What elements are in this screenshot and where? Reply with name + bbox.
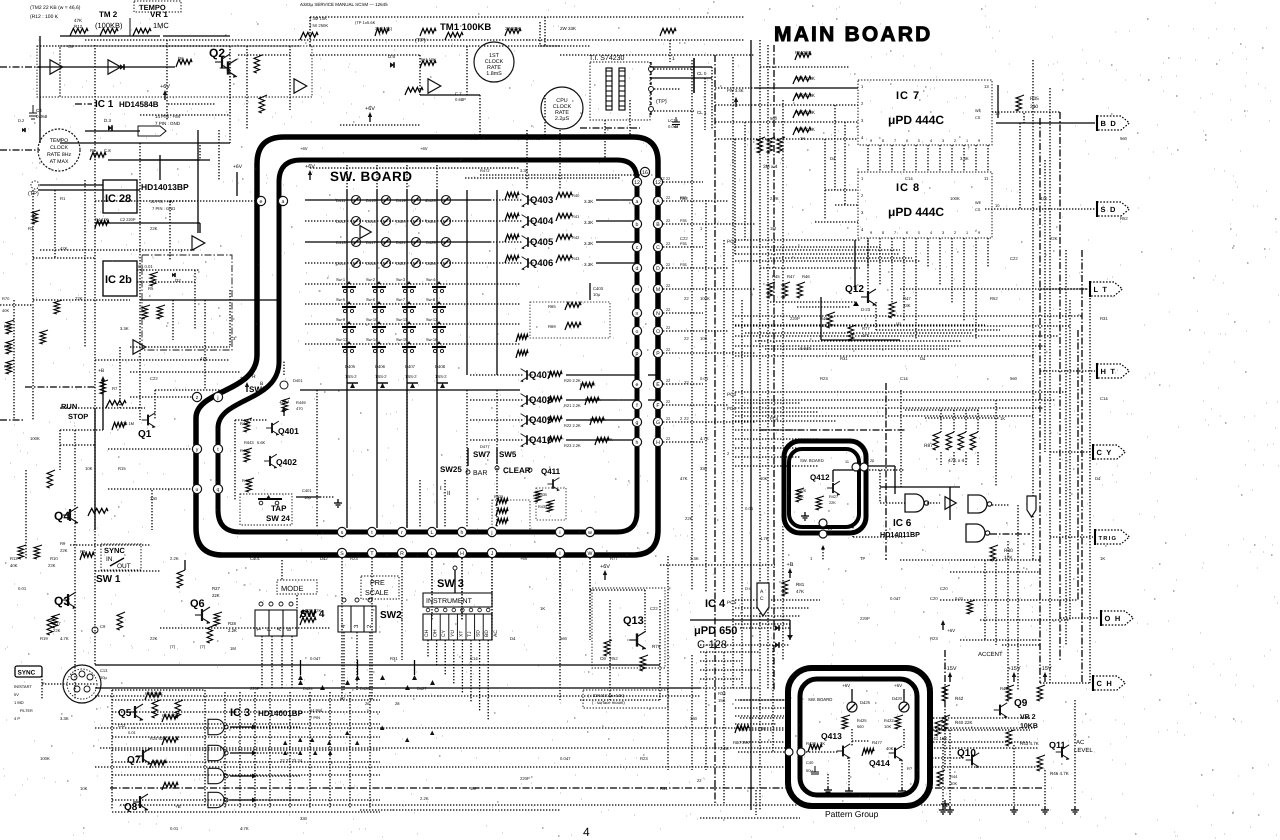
svg-text:D411: D411	[336, 198, 346, 203]
svg-text:14 PIN : +5V: 14 PIN : +5V	[150, 199, 174, 204]
svg-text:220P: 220P	[520, 776, 530, 781]
svg-text:S: S	[340, 551, 344, 557]
svg-text:Q402: Q402	[276, 457, 297, 467]
svg-text:2.2K: 2.2K	[228, 628, 237, 633]
svg-text:C-128: C-128	[697, 639, 727, 651]
svg-text:w: w	[588, 530, 592, 536]
svg-text:R1: R1	[60, 196, 66, 201]
svg-text:10μ: 10μ	[100, 675, 107, 680]
svg-text:Q403: Q403	[530, 195, 553, 206]
svg-text:2.2K: 2.2K	[420, 796, 429, 801]
svg-text:Sw-1: Sw-1	[336, 277, 346, 282]
svg-text:SD: SD	[476, 630, 482, 637]
svg-text:3.3K: 3.3K	[520, 168, 529, 173]
svg-text:m: m	[635, 287, 639, 293]
svg-text:2.2μS: 2.2μS	[555, 116, 570, 122]
svg-text:1 MΩ: 1 MΩ	[14, 700, 24, 705]
svg-text:a: a	[282, 199, 285, 205]
svg-text:R44: R44	[950, 774, 958, 779]
svg-text:SCALE: SCALE	[365, 588, 389, 597]
svg-text:R12: R12	[10, 556, 18, 561]
svg-text:+6V: +6V	[420, 146, 428, 151]
svg-text:R52: R52	[1120, 216, 1128, 221]
svg-text:o: o	[636, 329, 639, 335]
svg-text:470: 470	[296, 406, 303, 411]
svg-text:C.7: C.7	[455, 91, 462, 96]
svg-text:R477: R477	[872, 740, 883, 745]
svg-text:47K: 47K	[1040, 196, 1048, 201]
svg-text:1: 1	[966, 231, 968, 235]
svg-text:17K: 17K	[1004, 555, 1013, 561]
svg-text:h: h	[461, 530, 464, 536]
svg-text:SW. BOARD: SW. BOARD	[330, 169, 413, 184]
svg-text:C40: C40	[806, 760, 814, 765]
svg-text:D6: D6	[178, 56, 184, 61]
svg-text:i: i	[559, 530, 560, 536]
svg-text:13: 13	[984, 84, 989, 89]
svg-text:A: A	[276, 627, 283, 631]
svg-text:2W 33K: 2W 33K	[505, 26, 520, 31]
svg-text:Q1: Q1	[138, 429, 152, 440]
svg-text:220P: 220P	[860, 616, 870, 621]
svg-text:Q401: Q401	[278, 426, 299, 436]
svg-text:R01 3.3K: R01 3.3K	[795, 76, 816, 82]
svg-text:n: n	[636, 311, 639, 317]
svg-text:I: I	[559, 551, 560, 557]
svg-text:IN/START: IN/START	[14, 684, 32, 689]
svg-text:330: 330	[150, 496, 158, 501]
svg-text:2W 33K: 2W 33K	[560, 26, 576, 31]
svg-text:+15V: +15V	[1039, 666, 1052, 672]
svg-text:D-6: D-6	[745, 586, 752, 591]
svg-text:22: 22	[666, 196, 670, 200]
svg-text:μPD 444C: μPD 444C	[888, 113, 944, 127]
svg-text:Q414: Q414	[869, 758, 890, 768]
svg-text:10K: 10K	[85, 466, 93, 471]
svg-text:C14: C14	[470, 656, 478, 661]
svg-text:OH: OH	[433, 629, 439, 637]
svg-text:4.7K: 4.7K	[240, 826, 249, 831]
svg-text:D424: D424	[426, 219, 436, 224]
svg-text:+6V: +6V	[305, 164, 315, 170]
svg-text:SW25: SW25	[440, 465, 462, 474]
svg-text:100K: 100K	[40, 756, 50, 761]
svg-text:22: 22	[666, 242, 670, 246]
svg-text:6: 6	[906, 231, 908, 235]
svg-text:5.6K: 5.6K	[257, 440, 266, 445]
svg-text:Sw-7: Sw-7	[396, 297, 406, 302]
svg-text:Sw-11: Sw-11	[396, 317, 408, 322]
svg-text:Sw-12: Sw-12	[426, 317, 438, 322]
svg-text:R6: R6	[90, 148, 96, 153]
svg-text:P35: P35	[680, 219, 687, 223]
svg-text:1K: 1K	[1100, 556, 1105, 561]
svg-text:7 PIN : GND: 7 PIN : GND	[152, 206, 175, 211]
svg-text:15K: 15K	[718, 698, 726, 703]
svg-text:47K: 47K	[74, 18, 82, 23]
svg-text:D: D	[656, 266, 660, 272]
svg-text:FILTER: FILTER	[20, 709, 33, 713]
svg-text:0.047: 0.047	[560, 756, 571, 761]
svg-text:D406: D406	[375, 364, 386, 369]
svg-text:22: 22	[666, 417, 670, 421]
svg-text:22: 22	[666, 177, 670, 181]
svg-text:R443: R443	[244, 440, 254, 445]
svg-text:R44: R44	[1000, 686, 1008, 691]
svg-text:C H: C H	[1097, 679, 1114, 688]
svg-text:SW 24: SW 24	[266, 514, 291, 523]
svg-text:7: 7	[894, 231, 896, 235]
svg-text:C: C	[760, 596, 764, 602]
svg-text:R31: R31	[390, 656, 398, 661]
svg-text:3.3K: 3.3K	[584, 241, 593, 246]
svg-text:y: y	[196, 447, 199, 453]
svg-text:2K: 2K	[820, 741, 825, 746]
svg-text:4: 4	[930, 139, 932, 143]
svg-text:0.047: 0.047	[310, 656, 321, 661]
svg-text:CY: CY	[441, 629, 447, 637]
svg-text:3.3K: 3.3K	[960, 156, 969, 161]
svg-text:(R12 : 100 K: (R12 : 100 K	[30, 14, 59, 20]
svg-text:SW7: SW7	[473, 450, 491, 459]
svg-text:R77: R77	[862, 326, 870, 331]
svg-text:R28: R28	[228, 621, 236, 626]
svg-text:Q406: Q406	[530, 258, 553, 269]
svg-text:D4: D4	[830, 156, 836, 161]
svg-text:22: 22	[684, 296, 689, 301]
svg-text:D4: D4	[1095, 476, 1101, 481]
svg-text:0.047: 0.047	[890, 596, 901, 601]
svg-text:22: 22	[684, 336, 689, 341]
svg-text:R43: R43	[572, 256, 580, 261]
svg-text:22K: 22K	[75, 296, 83, 301]
svg-text:2: 2	[954, 139, 956, 143]
svg-text:Q7: Q7	[127, 755, 141, 766]
svg-text:R69: R69	[548, 324, 556, 329]
svg-text:30K: 30K	[950, 781, 957, 786]
svg-text:ACCENT: ACCENT	[978, 651, 1003, 658]
svg-text:( 3M 10K: ( 3M 10K	[310, 16, 327, 21]
svg-text:22K: 22K	[150, 636, 158, 641]
svg-text:IC 2b: IC 2b	[105, 274, 132, 286]
svg-text:+6V: +6V	[365, 106, 375, 112]
svg-text:0.01: 0.01	[128, 730, 137, 735]
svg-text:D419: D419	[396, 198, 406, 203]
svg-text:R04 3.3K: R04 3.3K	[795, 127, 816, 133]
svg-text:C20: C20	[940, 586, 948, 591]
svg-text:T: T	[256, 627, 263, 631]
svg-text:47K x 4: 47K x 4	[948, 458, 965, 464]
svg-text:C4: C4	[36, 108, 42, 113]
svg-text:D421: D421	[396, 240, 406, 245]
svg-text:4 P: 4 P	[14, 716, 20, 721]
svg-text:Sw-15: Sw-15	[396, 337, 408, 342]
svg-text:R426: R426	[242, 478, 252, 483]
svg-text:D4: D4	[920, 356, 926, 361]
svg-text:MODE: MODE	[281, 584, 304, 593]
svg-text:G: G	[656, 420, 660, 426]
svg-text:D425: D425	[426, 240, 436, 245]
svg-text:SW 1: SW 1	[96, 574, 121, 585]
svg-text:22K: 22K	[48, 563, 56, 568]
svg-text:7: 7	[894, 139, 896, 143]
svg-text:R70: R70	[2, 296, 10, 301]
svg-text:R: R	[252, 374, 256, 380]
svg-text:+15V: +15V	[1008, 666, 1021, 672]
svg-text:C14: C14	[905, 176, 913, 181]
svg-text:(4): (4)	[896, 321, 902, 326]
svg-text:C20: C20	[930, 596, 938, 601]
svg-text:D420: D420	[892, 696, 903, 701]
svg-text:OUT: OUT	[117, 563, 131, 570]
svg-text:MAIN BOARD: MAIN BOARD	[774, 23, 933, 46]
svg-text:Sw-9: Sw-9	[336, 317, 346, 322]
svg-text:3M x 4: 3M x 4	[763, 164, 778, 170]
svg-text:12: 12	[655, 180, 661, 186]
svg-text:R9: R9	[60, 541, 66, 546]
svg-text:μPD 650: μPD 650	[694, 625, 737, 637]
svg-text:330: 330	[690, 716, 698, 721]
svg-text:Q5: Q5	[118, 708, 132, 719]
svg-text:Q405: Q405	[530, 237, 554, 248]
svg-text:R?: R?	[907, 766, 913, 771]
svg-text:CS: CS	[975, 116, 981, 120]
svg-text:14 PIN : +5V: 14 PIN : +5V	[155, 114, 181, 119]
svg-text:Q412: Q412	[810, 473, 830, 482]
svg-text:Q13: Q13	[623, 615, 644, 627]
svg-text:e: e	[636, 382, 639, 388]
svg-text:12: 12	[798, 759, 802, 763]
svg-text:560: 560	[1120, 136, 1128, 141]
svg-text:Q413: Q413	[821, 731, 842, 741]
svg-text:(TP): (TP)	[415, 38, 426, 44]
svg-text:22K: 22K	[829, 501, 836, 505]
svg-text:47K: 47K	[60, 246, 68, 251]
svg-text:0.01: 0.01	[18, 586, 27, 591]
svg-text:R52: R52	[990, 296, 998, 301]
svg-text:μPD 444C: μPD 444C	[888, 205, 944, 219]
svg-text:560: 560	[857, 724, 864, 729]
svg-text:J: J	[491, 551, 494, 557]
svg-text:D412: D412	[336, 219, 346, 224]
svg-text:R23: R23	[820, 376, 828, 381]
svg-text:3.3K: 3.3K	[584, 262, 593, 267]
svg-text:23: 23	[828, 527, 832, 531]
svg-text:R42 47K: R42 47K	[590, 417, 606, 422]
svg-text:C22: C22	[650, 606, 658, 611]
svg-text:(TP): (TP)	[28, 191, 39, 197]
svg-text:TAP: TAP	[271, 504, 287, 513]
svg-text:0.01: 0.01	[745, 506, 754, 511]
svg-text:8: 8	[882, 231, 884, 235]
svg-text:AT MAX: AT MAX	[50, 159, 69, 165]
svg-text:9: 9	[978, 139, 980, 143]
svg-text:Q9: Q9	[1014, 698, 1028, 709]
svg-text:11: 11	[984, 176, 989, 181]
svg-text:22: 22	[697, 778, 702, 783]
svg-text:R47: R47	[903, 296, 911, 301]
svg-text:HD14584B: HD14584B	[119, 100, 159, 109]
svg-text:0.01: 0.01	[700, 376, 709, 381]
svg-text:C401: C401	[250, 556, 261, 561]
svg-text:D413: D413	[336, 240, 346, 245]
svg-text:C9: C9	[100, 624, 106, 629]
svg-text:D423: D423	[426, 198, 436, 203]
svg-text:R42: R42	[572, 235, 580, 240]
svg-text:R471: R471	[530, 136, 541, 141]
svg-text:TJ: TJ	[467, 631, 473, 637]
svg-text:0.68P: 0.68P	[455, 97, 466, 102]
svg-text:1SS-2: 1SS-2	[375, 374, 387, 379]
svg-text:Sw-14: Sw-14	[366, 337, 378, 342]
svg-text:R46: R46	[802, 274, 810, 279]
svg-text:8: 8	[882, 139, 884, 143]
svg-text:+B: +B	[175, 804, 181, 809]
svg-text:R41: R41	[572, 214, 580, 219]
svg-text:R52: R52	[680, 196, 688, 201]
svg-text:TP: TP	[860, 556, 866, 561]
svg-text:10: 10	[995, 111, 1000, 116]
svg-text:40K: 40K	[10, 563, 18, 568]
svg-text:D414: D414	[336, 261, 346, 266]
svg-text:C22: C22	[150, 376, 158, 381]
svg-text:IC 6: IC 6	[893, 518, 912, 529]
svg-text:47K: 47K	[796, 589, 804, 594]
svg-text:D405: D405	[345, 364, 356, 369]
svg-text:(7): (7)	[200, 644, 206, 649]
svg-text:5V: 5V	[14, 692, 19, 697]
svg-text:1K: 1K	[800, 136, 805, 141]
svg-text:IC 4: IC 4	[705, 598, 726, 610]
svg-text:22: 22	[684, 416, 689, 421]
svg-text:560: 560	[1010, 376, 1018, 381]
svg-text:TRIG: TRIG	[1099, 535, 1118, 542]
svg-text:P35: P35	[680, 263, 687, 267]
svg-text:3.3K: 3.3K	[690, 556, 699, 561]
svg-text:22K: 22K	[60, 548, 68, 553]
svg-text:C.8: C.8	[104, 148, 111, 153]
svg-text:1SS-2: 1SS-2	[405, 374, 417, 379]
svg-text:SW2: SW2	[380, 610, 402, 621]
svg-text:q: q	[217, 487, 220, 493]
svg-text:+6V: +6V	[520, 556, 528, 561]
svg-text:Q3: Q3	[54, 594, 70, 608]
svg-text:R43 47K: R43 47K	[597, 437, 613, 442]
svg-text:C Y: C Y	[1097, 448, 1113, 457]
svg-text:g: g	[636, 420, 639, 426]
svg-text:R: R	[400, 551, 404, 557]
svg-text:R27: R27	[212, 586, 220, 591]
svg-text:22: 22	[666, 400, 670, 404]
svg-text:R449: R449	[296, 400, 306, 405]
svg-text:R3: R3	[28, 226, 34, 231]
svg-text:R21 2.2K: R21 2.2K	[564, 403, 581, 408]
svg-text:CLEAR: CLEAR	[503, 466, 531, 475]
svg-text:16: 16	[642, 170, 648, 176]
svg-text:XT: XT	[458, 631, 464, 637]
svg-text:4: 4	[583, 825, 590, 839]
svg-text:( : surface mount): ( : surface mount)	[592, 700, 625, 705]
svg-text:R433: R433	[494, 495, 503, 499]
svg-text:TM 2: TM 2	[99, 10, 118, 19]
svg-text:R422: R422	[884, 718, 894, 723]
svg-text:Sw-10: Sw-10	[366, 317, 378, 322]
svg-text:D420: D420	[396, 219, 406, 224]
svg-text:R4 47K: R4 47K	[95, 217, 109, 222]
svg-text:R03 3.3K: R03 3.3K	[795, 110, 816, 116]
svg-text:PRE: PRE	[370, 578, 385, 587]
svg-text:Q11: Q11	[1049, 740, 1066, 750]
svg-text:22: 22	[684, 380, 689, 385]
svg-text:R45: R45	[772, 274, 780, 279]
svg-text:HD14013BP: HD14013BP	[141, 182, 189, 192]
svg-text:D415: D415	[366, 198, 376, 203]
svg-text:BAR: BAR	[473, 470, 487, 477]
svg-text:33K: 33K	[903, 303, 911, 308]
svg-text:B: B	[656, 222, 660, 228]
svg-text:0.068: 0.068	[36, 114, 48, 119]
svg-text:s: s	[341, 530, 344, 536]
svg-text:Sw-3: Sw-3	[396, 277, 406, 282]
svg-text:3.3K: 3.3K	[584, 199, 593, 204]
svg-text:22: 22	[666, 437, 670, 441]
svg-text:C14: C14	[900, 376, 908, 381]
svg-text:+6V: +6V	[842, 683, 850, 688]
svg-text:PC4: PC4	[727, 406, 736, 411]
svg-text:1K: 1K	[1000, 416, 1005, 421]
svg-text:R65: R65	[548, 304, 556, 309]
svg-text:TM1 100KB: TM1 100KB	[440, 22, 491, 33]
svg-text:R23: R23	[640, 756, 648, 761]
svg-text:R31: R31	[1100, 316, 1108, 321]
svg-text:R31: R31	[840, 356, 848, 361]
svg-text:C6: C6	[600, 656, 606, 661]
svg-text:P: P	[266, 627, 273, 631]
svg-text:47K: 47K	[200, 356, 208, 361]
svg-text:C401: C401	[302, 488, 312, 493]
svg-text:IN: IN	[106, 556, 113, 563]
svg-text:2.2K: 2.2K	[170, 556, 179, 561]
svg-text:(100KB): (100KB)	[95, 21, 123, 30]
svg-text:O H: O H	[1105, 614, 1122, 623]
svg-text:R12: R12	[74, 24, 83, 29]
svg-text:L: L	[431, 530, 434, 536]
svg-text:RATE 8Hz: RATE 8Hz	[47, 152, 72, 158]
svg-text:AC: AC	[493, 630, 499, 637]
svg-text:40K: 40K	[2, 308, 9, 313]
svg-text:10μ: 10μ	[304, 495, 311, 500]
svg-text:L: L	[431, 551, 434, 557]
svg-text:+6V: +6V	[233, 164, 243, 170]
svg-text:IC 28: IC 28	[105, 193, 131, 205]
svg-text:R425: R425	[857, 718, 867, 723]
svg-text:PW 3.3K: PW 3.3K	[727, 88, 744, 93]
svg-text:R52: R52	[610, 656, 618, 661]
svg-text:P35: P35	[680, 242, 687, 246]
svg-text:j: j	[216, 395, 218, 401]
svg-text:E: E	[656, 382, 660, 388]
svg-text:M: M	[656, 287, 660, 293]
svg-text:(TP): (TP)	[656, 99, 667, 105]
svg-text:TEMPO: TEMPO	[50, 138, 68, 144]
svg-text:9: 9	[870, 139, 872, 143]
svg-text:R20 2.2K: R20 2.2K	[564, 378, 581, 383]
svg-text:SW5: SW5	[499, 450, 517, 459]
svg-text:+6V: +6V	[300, 146, 308, 151]
svg-text:II: II	[447, 490, 451, 497]
svg-text:220P: 220P	[790, 316, 800, 321]
svg-text:100K: 100K	[700, 296, 710, 301]
